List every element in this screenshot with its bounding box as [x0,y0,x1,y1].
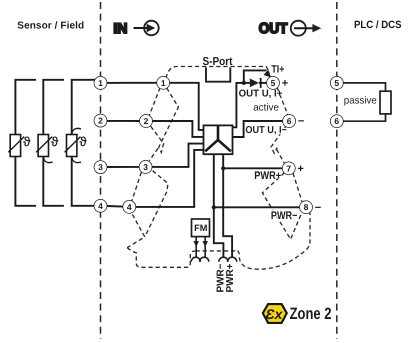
arrow FM b [203,241,208,247]
svg-text:IN: IN [113,20,127,36]
wire PWR+ rail down from transducer [223,154,232,257]
wire device terminal 1 to transducer input [169,83,203,130]
arrow TI+ [264,70,271,78]
device terminal 2 [140,115,152,127]
transducer U1 (isolation amplifier) [204,125,233,154]
svg-text:−: − [315,202,321,214]
svg-text:PLC / DCS: PLC / DCS [354,19,402,31]
resistor R load (passive input) [380,91,391,114]
wire PWR- rail down from transducer [214,154,224,257]
wire field terminal 1 to device terminal 1 [107,82,158,84]
housing edge terminal5-terminal6 [277,88,288,115]
svg-text:Zone 2: Zone 2 [290,305,332,323]
lead hook bottom of B2 [43,157,52,162]
wire field terminal 4 to device terminal 4 [107,205,124,208]
svg-text:+: + [282,78,288,90]
node junction TI+ tap [242,81,246,85]
svg-text:7: 7 [286,163,291,173]
housing edge to terminal 7 [277,149,285,163]
svg-text:5: 5 [271,78,276,88]
svg-text:ϑ: ϑ [80,134,88,149]
IN symbol (arrow into circle) [134,21,159,36]
wire load resistor to PLC terminal 6 [343,114,386,121]
housing edge below terminal 4 [127,214,145,247]
housing notch terminal6-terminal7 [271,127,286,154]
RTD sensor B2 (3-wire) [36,135,52,157]
svg-text:OUT: OUT [259,21,288,37]
svg-text:6: 6 [334,116,339,126]
svg-text:−: − [298,116,304,128]
svg-text:5: 5 [334,78,339,88]
svg-text:8: 8 [304,202,309,212]
device terminal 6 [283,115,295,127]
housing notch below terminal 2 [151,126,164,152]
wire sensor B2 top lead [43,80,64,135]
wire FM to bus contact a [195,237,197,258]
device housing dashed outline [127,67,310,270]
lead hook bottom of B3 [72,157,81,162]
diode D1 [250,78,267,88]
svg-text:PWR+: PWR+ [225,263,236,292]
node junction PWR+ [221,166,225,170]
wire device terminal 4 to transducer input [135,150,203,207]
wire transducer output- staircase to terminal 6 [233,121,284,137]
svg-text:1: 1 [161,78,166,88]
device terminal 8 [300,201,312,213]
Ex ATEX logo [263,304,287,323]
field terminal 1 [94,77,106,89]
housing edge terminal7-terminal8 [293,173,302,202]
device terminal 7 [283,162,295,174]
svg-text:OUT U, I+: OUT U, I+ [239,89,283,100]
svg-text:PWR−: PWR− [271,210,298,222]
svg-text:1: 1 [98,78,103,88]
svg-text:3: 3 [98,162,103,172]
wire device terminal 2 to transducer input [152,121,203,137]
wire transducer output+ up to diode [233,83,250,127]
field terminal 4 [94,200,106,212]
field terminal 3 [94,161,106,173]
wire FM to bus contact b [204,237,206,258]
housing top edge [166,67,269,79]
svg-text:3: 3 [143,162,148,172]
svg-text:FM: FM [194,223,208,233]
zone separator line left (Sensor/Field | IN) [100,2,102,339]
svg-text:PWR+: PWR+ [254,170,281,182]
svg-text:active: active [253,103,279,114]
svg-text:passive: passive [344,96,377,107]
wire sensor B1 bottom lead [15,157,36,206]
wire sensor B2 bottom lead [43,157,64,206]
housing notch right of terminal 1 [159,88,179,147]
svg-text:4: 4 [98,201,103,211]
RTD sensor B1 (2-wire) [8,135,24,157]
housing bottom right curve up to terminal 8 [237,213,310,270]
DIN rail bus contact 3 (PWR-) [219,257,228,262]
wire PLC terminal 5 to load resistor [343,83,386,91]
svg-text:4: 4 [127,202,132,212]
lead hook top of B3 [72,128,81,133]
DIN rail bus contact 1 [191,257,200,262]
housing bottom edge under bus contacts [196,250,238,252]
svg-text:Sensor / Field: Sensor / Field [17,21,84,32]
RTD sensor B3 (4-wire) [65,135,81,157]
wire field terminal 3 to device terminal 3 [107,166,140,168]
device terminal 3 [140,161,152,173]
svg-text:TI+: TI+ [271,63,284,75]
svg-text:ϑ: ϑ [23,134,31,149]
housing edge terminal3-terminal4 [132,172,142,201]
housing bottom-left bay [127,248,195,268]
housing notch left of terminal 8 [262,173,301,240]
FM fault monitoring block [192,219,210,237]
wire TI+ test tap [244,70,267,83]
wire sensor B1 top lead [15,80,36,135]
wire field terminal 2 to device terminal 2 [107,120,140,122]
arrow FM a [194,241,199,247]
DIN rail bus contact 4 (PWR+) [228,257,237,262]
DIN rail bus contact 2 [200,257,209,262]
PLC terminal 6 [331,115,343,127]
device terminal 4 [123,201,135,213]
wire device terminal 3 to transducer input [152,144,204,167]
wire sensor B3 top lead to terminal 1 [72,80,96,135]
OUT symbol (arrow out of circle) [291,21,321,36]
node junction PWR- [212,205,216,209]
housing notch right of terminal 3 [145,171,168,237]
housing edge to terminal 3 [149,148,158,160]
svg-text:6: 6 [287,116,292,126]
svg-text:OUT U, I−: OUT U, I− [245,125,287,136]
housing edge terminal1-terminal2 [149,88,160,116]
zone separator line right (OUT | PLC/DCS) [336,2,338,339]
svg-text:Ɛx: Ɛx [266,306,284,322]
PLC terminal 5 [331,77,343,89]
wire PWR+ to terminal 7 [223,167,283,169]
wire PWR- to terminal 8 [214,206,300,208]
field terminal 2 [94,115,106,127]
svg-text:2: 2 [98,116,103,126]
device terminal 5 [267,77,279,89]
svg-text:ϑ: ϑ [51,134,59,149]
S-Port programming interface connector [206,67,230,81]
svg-text:S-Port: S-Port [203,56,233,68]
wire sensor B3 bottom lead to terminal 4 [72,157,95,206]
device terminal 1 [157,77,169,89]
svg-text:+: + [297,163,303,175]
svg-text:2: 2 [144,116,149,126]
